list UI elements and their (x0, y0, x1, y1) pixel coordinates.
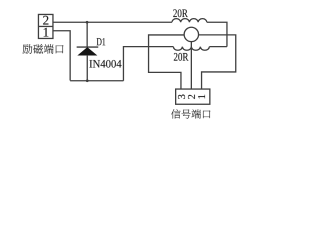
label pin 3 (rotated) (178, 95, 185, 99)
diode D1 triangle (anode, pointing up) (78, 48, 96, 55)
label 20R lower (174, 53, 189, 61)
winding L2 lower coil 20R (173, 47, 209, 51)
wire: lower coil left run to bottom rail (123, 47, 173, 81)
diode D1 wire bottom (86, 55, 88, 81)
wire: rotor bottom tap to signal pin 2 (190, 42, 192, 89)
wire: rotor right arm to signal pin 1 (199, 35, 236, 89)
label excitation port 励磁端口 (23, 44, 64, 54)
wire: bottom rail (70, 80, 123, 82)
label pin 1 (44, 28, 49, 37)
diode D1 cathode bar (77, 46, 99, 48)
wire: rotor left arm to signal pin 3 (149, 35, 185, 89)
label D1 (97, 38, 106, 45)
label 20R upper (173, 9, 188, 17)
wire: upper coil to right loop (207, 22, 227, 46)
node B junction dot (diode bottom / bottom rail) (86, 79, 89, 82)
diode D1 wire top (86, 22, 88, 46)
signal connector box (pins 3/2/1) (176, 89, 210, 104)
wire: pin1 down-run (53, 31, 70, 81)
node A junction dot (diode top / top rail) (86, 21, 89, 24)
terminal box J1 (excitation connector, pins 2/1) (38, 14, 53, 38)
label pin 2 (43, 16, 48, 25)
label pin 1 (rotated) (198, 95, 205, 99)
wire: pin2 to top rail (53, 21, 172, 23)
label IN4004 (89, 60, 121, 68)
label signal port 信号端口 (171, 109, 210, 118)
wire: lower coil right run (209, 46, 227, 48)
label pin 2 (rotated) (188, 95, 195, 99)
rotor circle (wiper) (184, 27, 198, 41)
winding L1 upper coil 20R (172, 19, 207, 23)
